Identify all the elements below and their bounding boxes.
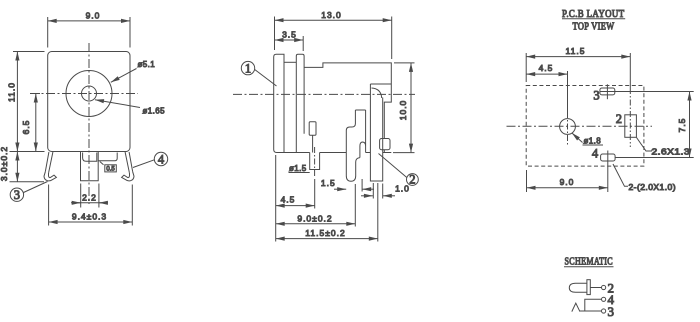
center pin hole circle dia 1.65: [82, 86, 97, 101]
jack body front view: [48, 52, 130, 152]
svg-text:ø1.5: ø1.5: [289, 164, 307, 173]
dimension 11.5 pcb: [525, 53, 527, 82]
right clip foot: [122, 172, 134, 181]
svg-text:4.5: 4.5: [539, 63, 554, 73]
svg-text:3.5: 3.5: [282, 29, 297, 39]
dimension 9.0 pcb: [526, 170, 528, 192]
balloon 1: [241, 61, 254, 74]
hole vertical centerline: [567, 112, 569, 146]
slot4 vertical centerline: [607, 151, 609, 169]
center terminal strip pin2: [370, 84, 391, 181]
slot3 horizontal ext: [600, 91, 694, 93]
wire to terminal 2: [590, 287, 601, 289]
side view horizontal centerline: [233, 93, 415, 95]
svg-text:2.6X1.3: 2.6X1.3: [652, 148, 691, 157]
svg-text:2.2: 2.2: [82, 192, 97, 202]
boxed dim 0.5: [105, 165, 117, 172]
right tab below body: [98, 153, 117, 161]
housing tab right: [380, 139, 390, 150]
dimension 9.0±0.2: [276, 223, 356, 225]
switch wiper symbol: [572, 303, 580, 311]
balloon 2: [407, 174, 419, 186]
svg-text:3: 3: [593, 89, 599, 103]
dimension 3.5: [302, 36, 304, 51]
svg-text:0.5: 0.5: [106, 166, 115, 172]
contact finger: [355, 110, 365, 158]
svg-text:9.0±0.2: 9.0±0.2: [297, 213, 332, 223]
svg-text:2: 2: [616, 112, 622, 126]
dimension 4.5 pcb: [567, 71, 569, 112]
terminal 2: [602, 285, 606, 289]
svg-text:7.5: 7.5: [677, 118, 687, 133]
flange rib 2: [296, 54, 304, 152]
svg-text:11.5±0.2: 11.5±0.2: [305, 228, 345, 238]
wire terminal 4: [585, 299, 602, 311]
wire terminal 3: [579, 310, 602, 312]
label dia 5.1: [111, 69, 137, 83]
dimension 2.2: [80, 184, 82, 208]
pin1 centerline: [314, 147, 316, 177]
svg-text:4: 4: [592, 147, 599, 161]
svg-text:11.5: 11.5: [566, 46, 586, 56]
svg-text:1.0: 1.0: [395, 183, 410, 193]
0.5 leader: [100, 162, 104, 165]
left clip pin strip: [45, 152, 53, 173]
slot4 horizontal ext: [615, 157, 694, 159]
pin collar rounded: [83, 153, 97, 162]
label 2-(2.0X1.0): [613, 164, 628, 186]
slot 2: [625, 115, 637, 138]
pcb horizontal centerline: [507, 125, 653, 127]
dimension 7.5 pcb: [689, 92, 691, 158]
svg-text:9.0: 9.0: [86, 11, 101, 21]
left clip foot: [44, 172, 56, 181]
center pin front view: [81, 152, 99, 181]
ext line pin2 center: [377, 183, 379, 242]
svg-text:4: 4: [158, 152, 165, 166]
terminal 4: [602, 297, 606, 301]
svg-text:11.0: 11.0: [6, 82, 16, 102]
label 2.6X1.3: [637, 138, 653, 152]
svg-text:SCHEMATIC: SCHEMATIC: [565, 256, 614, 267]
svg-text:4.5: 4.5: [281, 195, 296, 205]
label dia 1.8: [572, 133, 583, 143]
svg-text:ø1.8: ø1.8: [584, 137, 602, 146]
slot 4: [601, 154, 616, 161]
barrel outer circle dia 5.1: [66, 71, 112, 117]
slot3 vertical centerline: [606, 84, 608, 99]
ext line body left: [275, 155, 277, 242]
side body outline: [274, 54, 392, 152]
balloon 3: [10, 188, 23, 201]
svg-text:10.0: 10.0: [398, 100, 408, 121]
dimension 6.5: [35, 94, 37, 152]
front pin side view dia1.5: [310, 153, 320, 170]
label dia 1.65: [95, 100, 140, 108]
dimension 11.5±0.2: [276, 238, 378, 240]
dimension 1.0: [361, 195, 373, 197]
svg-text:2-(2.0X1.0): 2-(2.0X1.0): [629, 183, 677, 192]
pcb outline dashed: [526, 86, 644, 167]
right clip pin strip: [125, 152, 133, 173]
svg-text:ø1.65: ø1.65: [143, 107, 166, 116]
ext line pin1 center: [314, 179, 316, 209]
vertical centerline front view: [88, 43, 90, 204]
switch contact bent pin3: [346, 110, 360, 181]
ledge right of rib: [304, 63, 391, 139]
svg-text:9.0: 9.0: [560, 177, 575, 187]
horizontal centerline front view: [30, 93, 138, 95]
pcb hole dia 1.8: [560, 119, 576, 135]
svg-text:9.4±0.3: 9.4±0.3: [72, 212, 107, 222]
internal slot: [309, 122, 316, 136]
center pin symbol pill: [569, 283, 587, 292]
dimension 10.0: [394, 62, 415, 64]
svg-text:6.5: 6.5: [21, 120, 31, 135]
small ext lines 1.5/1.0: [361, 179, 363, 192]
svg-text:TOP VIEW: TOP VIEW: [573, 21, 615, 32]
ext line pin3: [354, 184, 356, 227]
flange groove top: [284, 61, 296, 63]
terminal 3: [602, 309, 606, 313]
balloon 4: [154, 152, 167, 165]
slot 3: [600, 88, 615, 95]
slot2 centerline: [629, 88, 631, 147]
tip contact bar: [587, 280, 590, 295]
dimension 13.0: [274, 17, 276, 51]
wall below tab: [383, 150, 385, 153]
wall below slot: [312, 135, 314, 152]
svg-text:2: 2: [409, 173, 415, 187]
svg-text:ø5.1: ø5.1: [138, 60, 156, 69]
dimension 9.4±0.3: [48, 185, 50, 226]
svg-text:1: 1: [245, 61, 251, 75]
dimension 4.5 side: [276, 205, 315, 207]
svg-text:3: 3: [608, 304, 615, 319]
dimension 11.0 left: [13, 51, 45, 53]
svg-text:1.5: 1.5: [321, 178, 336, 188]
dimension 1.5: [334, 188, 346, 190]
svg-text:13.0: 13.0: [321, 10, 342, 20]
dimension 9.0 top front: [47, 17, 49, 48]
dimension 3.0±0.2: [16, 152, 18, 182]
svg-text:3: 3: [14, 188, 20, 202]
svg-text:3.0±0.2: 3.0±0.2: [0, 146, 9, 181]
